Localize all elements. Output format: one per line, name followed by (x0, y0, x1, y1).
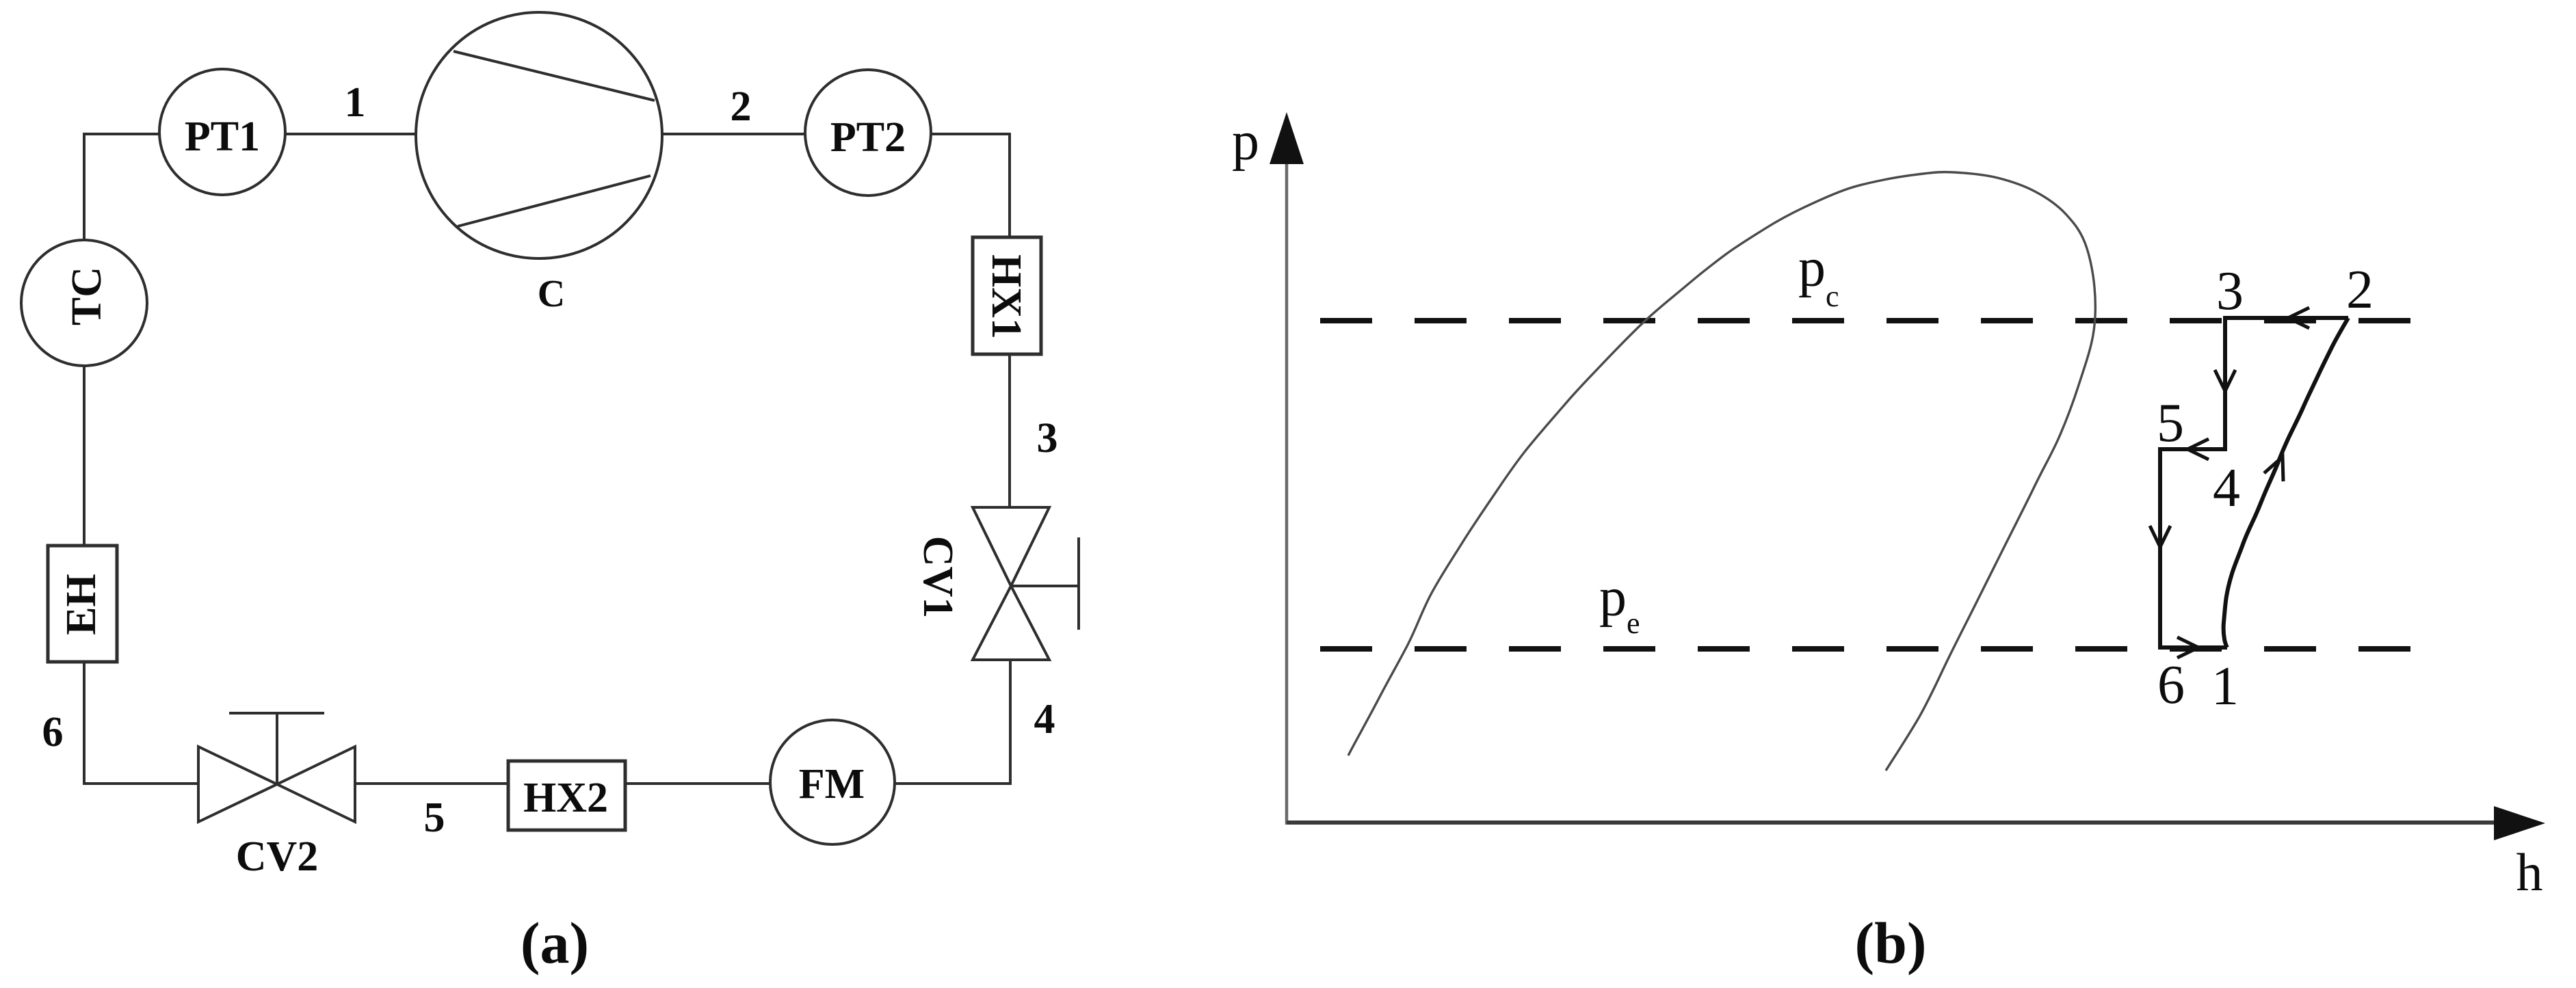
wire CV2 left to corner to EH bottom (84, 662, 198, 784)
wire PT2 right to corner to HX1 top (931, 134, 1010, 237)
wire FM left to HX2 right (625, 782, 770, 785)
svg-text:5: 5 (2157, 393, 2184, 453)
wire TC top to corner to PT1 left (84, 134, 159, 240)
heat exchanger HX1 (973, 237, 1041, 354)
dashed line pc (1320, 318, 2412, 323)
x-axis h (1287, 820, 2497, 825)
control valve CV1 (973, 507, 1049, 586)
svg-text:TC: TC (64, 267, 110, 325)
electric heater EH (48, 546, 117, 662)
svg-text:3: 3 (2216, 261, 2244, 321)
cycle compression curve 1-2 (2224, 318, 2348, 647)
wire CV1 bottom to corner to FM right (895, 660, 1010, 784)
dashed line pe (1320, 646, 2412, 652)
svg-text:1: 1 (345, 79, 366, 126)
heat exchanger HX2 (508, 761, 625, 830)
arrow 2->3 (2288, 308, 2309, 328)
svg-text:EH: EH (58, 574, 105, 635)
wire PT1 right to compressor left (285, 133, 417, 135)
flow meter FM (770, 720, 895, 844)
svg-text:2: 2 (731, 83, 752, 130)
svg-text:C: C (538, 273, 565, 315)
svg-text:5: 5 (424, 795, 445, 841)
svg-text:2: 2 (2346, 260, 2374, 320)
wire compressor right to PT2 left (662, 133, 805, 135)
arrow 5->6 (2150, 526, 2170, 547)
svg-text:FM: FM (799, 761, 865, 807)
arrow into 5 (2187, 439, 2209, 459)
svg-text:3: 3 (1037, 415, 1058, 462)
sensor PT2 (805, 70, 931, 196)
wire HX1 bottom to CV1 top (1008, 354, 1011, 507)
svg-text:4: 4 (1034, 696, 1055, 743)
svg-text:6: 6 (2157, 655, 2185, 715)
svg-text:CV2: CV2 (236, 833, 319, 880)
svg-text:CV1: CV1 (915, 536, 961, 619)
svg-text:p: p (1232, 111, 1259, 172)
wire HX2 left to CV2 right (355, 782, 508, 785)
sensor TC (21, 240, 147, 366)
saturation dome (1348, 172, 2095, 771)
arrow 3->5 (2215, 370, 2235, 391)
arrow 1->2 (2264, 457, 2283, 481)
svg-text:PT2: PT2 (830, 114, 906, 161)
svg-text:(b): (b) (1854, 910, 1926, 976)
svg-text:h: h (2516, 842, 2543, 902)
svg-text:PT1: PT1 (185, 114, 260, 160)
svg-text:HX2: HX2 (523, 775, 608, 821)
arrow 6->1 (2177, 637, 2198, 658)
svg-text:6: 6 (42, 709, 64, 756)
cycle polyline 2-3-5-6 (2160, 318, 2348, 647)
svg-text:1: 1 (2211, 656, 2239, 717)
wire EH top to TC bottom (83, 366, 86, 546)
svg-text:4: 4 (2213, 458, 2240, 518)
y-axis p (1285, 163, 1289, 825)
svg-text:(a): (a) (521, 910, 589, 976)
sensor PT1 (159, 69, 285, 195)
compressor C (416, 12, 662, 258)
control valve CV2 (198, 747, 277, 822)
svg-text:HX1: HX1 (983, 254, 1029, 339)
